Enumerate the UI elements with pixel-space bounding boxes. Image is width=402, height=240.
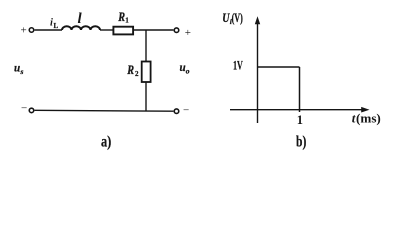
y-axis of graph — [257, 19, 259, 123]
resistor R1 — [113, 27, 133, 35]
terminal bottom-left — [29, 108, 34, 113]
svg-text:s: s — [20, 67, 24, 76]
inductor L — [62, 26, 100, 30]
svg-text:2: 2 — [135, 70, 139, 78]
y-axis arrowhead — [255, 16, 260, 24]
svg-text:+: + — [21, 25, 27, 37]
svg-text:(ms): (ms) — [356, 111, 381, 126]
wire R1 to terminal top-right — [134, 29, 173, 31]
wire top-left to inductor — [35, 29, 62, 31]
svg-text:1: 1 — [297, 113, 303, 127]
x-axis of graph — [230, 109, 366, 111]
terminal bottom-right — [174, 109, 179, 114]
svg-text:1V: 1V — [233, 58, 243, 72]
terminal top-left — [29, 28, 34, 33]
pulse top segment at 1V — [258, 66, 300, 68]
wire inductor to R1 — [100, 29, 113, 31]
svg-text:b): b) — [296, 134, 306, 151]
svg-text:o: o — [186, 67, 190, 76]
bottom wire — [35, 109, 174, 112]
x-axis arrowhead — [361, 107, 369, 113]
svg-text:1: 1 — [125, 17, 129, 25]
svg-text:+: + — [185, 27, 191, 39]
svg-text:−: − — [183, 105, 189, 117]
svg-text:R: R — [126, 63, 134, 77]
svg-text:−: − — [21, 103, 27, 115]
pulse falling edge at t=1 — [299, 67, 301, 112]
svg-text:l: l — [78, 11, 83, 27]
wire R2 to bottom — [145, 82, 147, 111]
resistor R2 — [142, 62, 151, 83]
svg-text:a): a) — [101, 134, 111, 151]
wire junction down to R2 — [145, 30, 147, 62]
svg-text:R: R — [117, 10, 125, 24]
svg-text:L: L — [54, 22, 59, 30]
svg-text:(V): (V) — [232, 11, 243, 25]
terminal top-right — [174, 28, 179, 33]
